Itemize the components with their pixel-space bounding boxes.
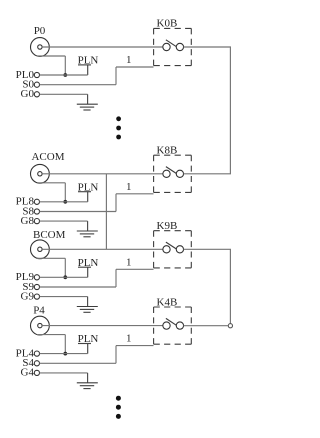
wire ACOM shield drop [64,183,66,202]
terminal G8 circle [34,219,39,224]
wire G8 [40,220,88,222]
terminal S0 circle [34,82,39,87]
relay K8B switch left contact [163,170,170,177]
continuation dots (top) [116,116,121,139]
wire P0 shield drop [64,56,66,75]
terminal PL9 circle [34,275,39,280]
PLN label bar [78,343,91,345]
wire S8 to relay K8B pin 1 [116,193,154,195]
relay K9B switch lever [166,242,177,249]
ground symbol (G0) [77,104,98,110]
junction dot shield to PL8 [63,200,67,204]
wire ACOM center pin to relay K8B [42,173,163,175]
wire P4 center pin to relay K4B [42,325,163,327]
wire P4 shield drop [64,335,66,354]
wire P0 center pin to relay K0B [42,46,163,48]
relay K4B switch lever [166,318,177,325]
wire S9 vertical [115,269,117,287]
connector P4 shell circle [31,316,50,335]
svg-text:1: 1 [126,256,132,268]
relay K4B switch left contact [163,322,170,329]
terminal PL8 circle [34,199,39,204]
wire S0 to relay K0B pin 1 [116,66,154,68]
wire ACOM branch to BCOM line [105,174,107,250]
svg-text:P4: P4 [33,305,45,317]
section P4 [16,296,192,388]
relay K9B switch right contact [176,246,183,253]
PLN label stub [87,65,89,75]
wire S4 to relay K4B pin 1 [116,345,154,347]
terminal S8 circle [34,209,39,214]
relay K9B switch left contact [163,246,170,253]
terminal S9 circle [34,284,39,289]
svg-text:G4: G4 [21,367,35,379]
relay K0B switch right contact [176,43,183,50]
relay K4B switch right contact [176,322,183,329]
relay K8B switch lever [166,167,177,174]
wire S0 horizontal [40,84,117,86]
continuation dots (bottom) [116,396,121,419]
wire G9 to ground [87,297,89,307]
relay K9B dashed box [154,231,192,268]
PLN label stub [87,192,89,202]
svg-text:1: 1 [126,54,132,66]
relay K0B switch left contact [163,43,170,50]
connector ACOM center pin [38,172,42,176]
wire P4 shield horizontal [37,334,65,336]
wire ACOM shield horizontal [37,182,65,184]
PLN label bar [78,64,91,66]
ground symbol (G8) [77,231,98,237]
PLN label stub [87,344,89,354]
wire G0 [40,93,88,95]
wire BCOM center pin to relay K9B [42,248,163,250]
relay K0B switch lever [166,40,177,47]
svg-text:ACOM: ACOM [31,151,64,163]
terminal PL0 circle [34,72,39,77]
wire PL9 [40,276,88,278]
svg-text:G9: G9 [21,290,35,302]
wire node to K4B output [184,325,229,327]
terminal S4 circle [34,361,39,366]
PLN label bar [78,266,91,268]
svg-text:G0: G0 [21,88,35,100]
svg-text:G8: G8 [21,215,35,227]
relay K8B switch right contact [176,170,183,177]
relay K0B dashed box [154,28,192,65]
junction dot shield to PL9 [63,275,67,279]
wire S0 vertical [115,67,117,85]
node open circle at bus corner [228,324,232,328]
PLN label bar [78,191,91,193]
wire S9 horizontal [40,286,117,288]
wire BCOM shield horizontal [37,257,65,259]
wire G0 to ground [87,94,89,104]
relay K8B dashed box [154,155,192,192]
junction dot shield to PL0 [63,73,67,77]
relay K4B dashed box [154,307,192,344]
connector P0 center pin [38,45,42,49]
section ACOM [16,145,192,237]
svg-text:1: 1 [126,181,132,193]
connector BCOM center pin [38,247,42,251]
wire S4 horizontal [40,362,117,364]
ground symbol (G4) [77,383,98,389]
connector P0 shell circle [31,38,50,57]
wire PL8 [40,201,88,203]
wire bus K9B output toward K4B [184,249,231,323]
wire G9 [40,296,88,298]
wire G8 to ground [87,221,89,231]
wire G4 to ground [87,373,89,383]
wire S8 horizontal [40,211,117,213]
wire G4 [40,372,88,374]
terminal G9 circle [34,294,39,299]
terminal PL4 circle [34,351,39,356]
wire S8 vertical [115,194,117,212]
svg-text:P0: P0 [34,25,46,37]
junction dot shield to PL4 [63,352,67,356]
wire S9 to relay K9B pin 1 [116,268,154,270]
section P0 [16,18,192,110]
wire BCOM shield drop [64,258,66,277]
wire PL0 [40,74,88,76]
wire bus K0B output to K8B input [184,47,231,174]
section BCOM [16,220,192,312]
terminal G4 circle [34,370,39,375]
PLN label stub [87,267,89,277]
connector P4 center pin [38,323,42,327]
svg-text:BCOM: BCOM [33,229,66,241]
ground symbol (G9) [77,307,98,313]
terminal G0 circle [34,92,39,97]
connector ACOM shell circle [31,164,50,183]
connector BCOM shell circle [31,240,50,259]
wire S4 vertical [115,346,117,364]
wire P0 shield horizontal [37,55,65,57]
wire PL4 [40,353,88,355]
svg-text:1: 1 [126,333,132,345]
